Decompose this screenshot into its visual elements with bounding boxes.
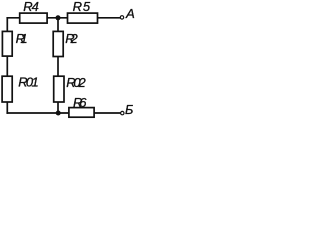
wire left vertical: [6, 18, 8, 113]
svg-text:R2: R2: [65, 31, 78, 46]
wire top horizontal: [7, 17, 120, 19]
terminal A circle: [120, 16, 123, 19]
junction node top: [56, 15, 61, 20]
terminal B circle: [121, 111, 124, 114]
resistor R4: [20, 13, 47, 23]
svg-text:R1: R1: [16, 31, 28, 46]
resistor R5: [68, 13, 98, 23]
resistor R01: [2, 76, 12, 102]
junction node bottom: [56, 111, 61, 116]
svg-text:Б: Б: [125, 102, 133, 117]
svg-text:A: A: [125, 6, 135, 21]
wire middle vertical: [57, 18, 59, 113]
svg-text:R4: R4: [23, 0, 39, 14]
resistor R1: [2, 31, 12, 56]
svg-text:R5: R5: [73, 0, 91, 14]
svg-text:R02: R02: [66, 75, 86, 90]
resistor R2: [53, 31, 63, 56]
resistor R02: [54, 76, 64, 102]
svg-text:R01: R01: [18, 75, 39, 90]
wire bottom horizontal: [7, 112, 120, 114]
resistor R6: [69, 108, 94, 118]
svg-text:R6: R6: [73, 95, 87, 110]
